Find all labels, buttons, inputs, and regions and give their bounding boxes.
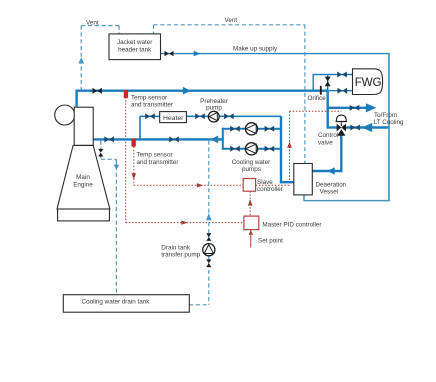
wire: drain downcomer to drain tank bbox=[115, 159, 117, 295]
svg-text:LT Cooling: LT Cooling bbox=[374, 119, 404, 126]
wire: slave output riser (red dotted) bbox=[289, 111, 291, 185]
svg-text:and transmitter: and transmitter bbox=[137, 159, 179, 166]
valve on engine inlet line mid bbox=[169, 136, 179, 142]
control valve (3-way) bbox=[337, 124, 346, 136]
svg-text:Master PID controller: Master PID controller bbox=[262, 222, 321, 229]
FWG (fresh water generator) bbox=[353, 69, 383, 95]
flow arrow on make up supply bbox=[194, 51, 201, 56]
wire: deaeration vessel inlet bbox=[312, 170, 343, 172]
signal arrow master to slave bbox=[248, 199, 253, 205]
wire: vent 1 drop into header tank bbox=[118, 26, 120, 34]
flow arrow into deaeration vessel bbox=[327, 167, 334, 174]
heater bbox=[160, 112, 187, 123]
wire: master PID to slave controller signal bbox=[249, 191, 251, 216]
svg-text:Engine: Engine bbox=[73, 182, 93, 189]
valve FWG bypass (vertical) bbox=[325, 77, 331, 87]
wire: FWG top branch riser bbox=[312, 75, 314, 91]
valve FWG lower line bbox=[338, 88, 348, 94]
wire: suction collector vertical bbox=[280, 116, 282, 183]
wire: temp sensor 2 signal to slave controller bbox=[134, 184, 243, 186]
flow arrow LT cooling incoming bbox=[362, 123, 372, 132]
svg-text:Cooling water drain tank: Cooling water drain tank bbox=[82, 299, 151, 306]
wire: set point input bbox=[250, 230, 252, 248]
wire: LT cooling incoming line bbox=[345, 126, 389, 128]
main engine body (trapezoid) bbox=[57, 145, 110, 209]
valve heater outlet bbox=[195, 113, 205, 119]
svg-text:Vent: Vent bbox=[86, 20, 99, 27]
wire: vent 2 riser from tank bbox=[153, 25, 155, 34]
wire: vent 1 vertical (dashed) bbox=[80, 26, 82, 90]
svg-text:Set point: Set point bbox=[258, 238, 283, 245]
flow arrow on main outlet line bbox=[183, 87, 191, 95]
wire: signal to control valve bbox=[290, 110, 342, 112]
wire: FWG lower feed line bbox=[329, 90, 353, 92]
flow arrow drain down bbox=[114, 165, 120, 170]
valve on engine inlet line near engine bbox=[104, 136, 114, 142]
wire: upper cooling pump branch bbox=[222, 128, 281, 130]
valve upper pump branch right bbox=[265, 126, 275, 132]
wire: main engine inlet line (y=139.4) bbox=[94, 138, 223, 140]
wire: heater branch riser bbox=[139, 116, 141, 139]
main engine base bbox=[58, 209, 110, 221]
svg-text:transfer pump: transfer pump bbox=[161, 251, 200, 258]
wire: lower cooling pump branch bbox=[222, 148, 281, 150]
valve upper pump branch left bbox=[230, 126, 240, 132]
wire: temp sensor 1 signal to master PID bbox=[126, 222, 244, 224]
control valve stem bbox=[340, 122, 342, 126]
svg-text:pumps: pumps bbox=[242, 166, 261, 173]
deaeration vessel bbox=[294, 164, 313, 195]
control valve actuator dome bbox=[336, 115, 346, 121]
svg-text:Vessel: Vessel bbox=[320, 189, 339, 196]
wire: drain pump column elbow to tank bbox=[189, 304, 209, 306]
wire: LT cooling outgoing line bbox=[327, 107, 368, 109]
valve on make up supply bbox=[165, 51, 174, 56]
valve preheater pump outlet bbox=[224, 113, 234, 119]
svg-text:Cooling water: Cooling water bbox=[232, 159, 271, 166]
valve LT cooling outgoing bbox=[350, 105, 360, 111]
jacket water header tank bbox=[109, 34, 161, 60]
wire: main engine outlet line (top, y=90.7) bbox=[77, 89, 329, 91]
svg-text:controller: controller bbox=[257, 186, 283, 193]
valve FWG top line bbox=[337, 72, 347, 78]
valve heater inlet bbox=[145, 113, 155, 119]
svg-text:To/From: To/From bbox=[374, 112, 397, 119]
wire: engine drain horizontal (dashed) bbox=[101, 158, 117, 160]
wire: vent 2 horizontal (dashed) bbox=[154, 24, 305, 26]
svg-text:Control: Control bbox=[318, 132, 338, 139]
wire: make up bottom run bbox=[304, 200, 390, 202]
svg-text:header tank: header tank bbox=[118, 46, 152, 53]
svg-text:valve: valve bbox=[318, 139, 333, 146]
svg-text:Make up supply: Make up supply bbox=[233, 46, 278, 53]
wire: temp sensor 1 signal vertical (red dotted) bbox=[125, 97, 127, 223]
temp sensor 2 (red bar) bbox=[132, 139, 136, 147]
main engine cylinder block bbox=[74, 107, 93, 145]
cooling water pump lower bbox=[245, 143, 257, 155]
signal arrow set point up bbox=[249, 230, 254, 234]
cooling water pump upper bbox=[245, 123, 257, 135]
svg-text:Vent: Vent bbox=[224, 17, 237, 24]
temp sensor 1 (red bar) bbox=[124, 90, 128, 98]
svg-text:pump: pump bbox=[206, 105, 222, 112]
master PID controller box bbox=[244, 216, 259, 230]
svg-text:Slave: Slave bbox=[257, 179, 273, 186]
drain tank transfer pump bbox=[203, 244, 215, 256]
svg-text:Deaeration: Deaeration bbox=[316, 181, 347, 188]
wire: slave controller output horizontal bbox=[256, 184, 290, 186]
wire: engine drain stub bbox=[100, 141, 102, 160]
flow arrow LT cooling outgoing bbox=[366, 103, 377, 112]
wire: engine top riser bbox=[75, 90, 77, 107]
wire: vessel bottom stub bbox=[303, 195, 305, 201]
main engine turbocharger circle bbox=[55, 105, 75, 125]
valve on engine outlet line bbox=[93, 88, 102, 94]
wire: deaeration vessel outlet to collector bbox=[280, 181, 295, 183]
wire: control valve inlet stub bbox=[327, 126, 339, 128]
svg-text:Temp sensor: Temp sensor bbox=[137, 151, 173, 158]
wire: vent 2 downcomer to deaeration vessel bbox=[304, 25, 306, 164]
svg-text:FWG: FWG bbox=[355, 76, 382, 89]
preheater pump bbox=[208, 111, 219, 122]
signal arrow to slave controller bbox=[197, 183, 203, 187]
wire: vent 1 horizontal (dashed) bbox=[81, 25, 119, 27]
wire: temp sensor 2 signal vertical (red dotted) bbox=[133, 147, 135, 186]
flow arrow drain pump up bbox=[206, 213, 212, 220]
wire: FWG top branch horizontal bbox=[313, 74, 353, 76]
wire: preheater line bbox=[140, 115, 281, 117]
cooling water drain tank bbox=[63, 295, 189, 313]
wire: pump branch split vertical bbox=[222, 128, 224, 150]
signal arrow temp sensor 2 down bbox=[132, 173, 137, 179]
signal arrow slave output up bbox=[287, 142, 292, 148]
svg-text:Main: Main bbox=[76, 174, 90, 181]
valve lower pump branch right bbox=[265, 146, 275, 152]
orifice plate bbox=[320, 86, 322, 95]
wire: FWG bypass connector vertical bbox=[327, 75, 329, 91]
wire: control valve drop pipe bbox=[340, 132, 342, 172]
wire: downcomer to LT cooling junctions bbox=[327, 91, 329, 128]
svg-text:Heater: Heater bbox=[163, 115, 184, 122]
svg-text:Orifice: Orifice bbox=[308, 95, 327, 102]
svg-text:Jacket water: Jacket water bbox=[117, 39, 152, 46]
wire: make up right downcomer bbox=[388, 54, 390, 201]
valve LT cooling incoming bbox=[350, 125, 360, 131]
wire: make up supply line bbox=[161, 53, 390, 55]
svg-text:Temp sensor: Temp sensor bbox=[131, 94, 167, 101]
svg-text:and transmitter: and transmitter bbox=[131, 102, 173, 109]
flow arrow vent 1 up bbox=[78, 57, 84, 63]
valve engine drain (vertical) bbox=[98, 149, 103, 157]
valve drain pump suction (vertical) bbox=[206, 233, 211, 241]
wire: drain pump column (dashed) bbox=[208, 141, 210, 305]
slave controller box bbox=[243, 179, 255, 192]
signal arrow to master PID bbox=[181, 220, 187, 224]
valve lower pump branch left bbox=[230, 146, 240, 152]
flow arrow on main inlet line (to engine) bbox=[211, 136, 219, 144]
valve drain pump discharge (vertical) bbox=[206, 259, 211, 267]
